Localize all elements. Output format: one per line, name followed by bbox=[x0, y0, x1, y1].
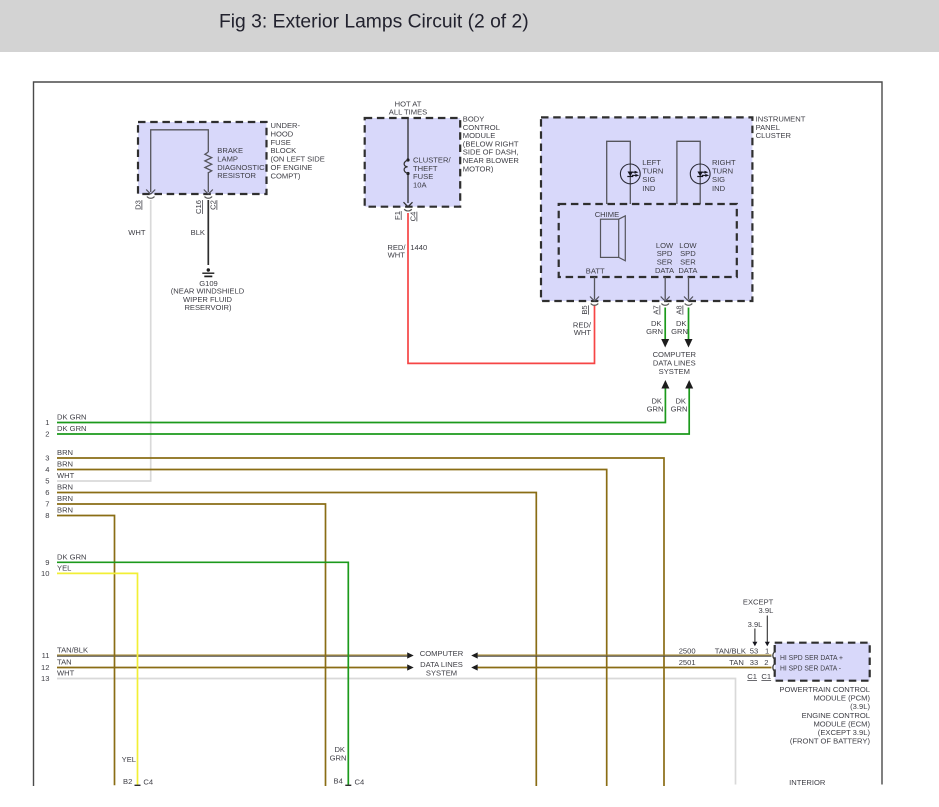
svg-text:DK GRN: DK GRN bbox=[57, 424, 87, 433]
connector C1 pin 2 (arc) bbox=[773, 663, 776, 671]
wire DK GRN from A7 to computer data lines system bbox=[646, 308, 669, 348]
fuse box: cluster/theft fuse bbox=[365, 118, 461, 207]
svg-text:BRN: BRN bbox=[57, 460, 73, 469]
svg-text:C1: C1 bbox=[747, 672, 757, 681]
speaker icon: chime bbox=[601, 216, 626, 261]
svg-text:C4: C4 bbox=[409, 212, 418, 222]
svg-text:BATT: BATT bbox=[586, 267, 605, 276]
svg-text:B2: B2 bbox=[123, 777, 132, 786]
svg-text:3.9L: 3.9L bbox=[759, 606, 774, 615]
svg-text:IND: IND bbox=[712, 184, 726, 193]
svg-text:11: 11 bbox=[42, 651, 50, 660]
svg-text:TAN/BLK: TAN/BLK bbox=[57, 646, 88, 655]
svg-text:C16: C16 bbox=[194, 200, 203, 214]
wire row 11 TAN/BLK left segment bbox=[42, 646, 414, 661]
label LOW SPD SER DATA (A8) bbox=[678, 241, 698, 275]
svg-text:D3: D3 bbox=[134, 200, 143, 210]
svg-text:C4: C4 bbox=[355, 778, 365, 787]
svg-text:COMPUTER: COMPUTER bbox=[653, 350, 697, 359]
svg-text:2500: 2500 bbox=[679, 647, 696, 656]
svg-text:1440: 1440 bbox=[410, 243, 427, 252]
svg-text:TAN: TAN bbox=[57, 658, 72, 667]
svg-text:33: 33 bbox=[750, 658, 758, 667]
connector C1 pin 1 (arc) bbox=[773, 651, 776, 659]
label: body control module bbox=[463, 115, 520, 174]
svg-text:2501: 2501 bbox=[679, 658, 696, 667]
svg-text:C1: C1 bbox=[761, 672, 771, 681]
svg-text:12: 12 bbox=[41, 663, 49, 672]
ground G109 bbox=[171, 268, 245, 312]
svg-text:INTERIOR: INTERIOR bbox=[789, 778, 826, 787]
label HI SPD SER DATA - bbox=[780, 664, 841, 673]
svg-text:1: 1 bbox=[765, 647, 769, 656]
wire row 4 BRN bbox=[45, 460, 606, 787]
svg-text:SYSTEM: SYSTEM bbox=[659, 367, 690, 376]
svg-text:BRN: BRN bbox=[57, 483, 73, 492]
svg-text:ALL TIMES: ALL TIMES bbox=[389, 108, 427, 117]
svg-text:GRN: GRN bbox=[646, 327, 663, 336]
svg-text:WHT: WHT bbox=[128, 228, 146, 237]
svg-text:4: 4 bbox=[45, 465, 49, 474]
svg-text:GRN: GRN bbox=[671, 327, 688, 336]
connector pin D3 bbox=[134, 190, 156, 210]
svg-text:C4: C4 bbox=[143, 778, 153, 787]
svg-text:F1: F1 bbox=[393, 211, 402, 220]
left turn signal indicator bbox=[607, 141, 664, 204]
wire: fuse internal bbox=[407, 118, 409, 203]
svg-text:B5: B5 bbox=[580, 305, 589, 314]
wire row 7 BRN bbox=[45, 494, 325, 786]
svg-text:A7: A7 bbox=[652, 305, 661, 314]
connector pin F1 / C4 bbox=[393, 202, 418, 221]
svg-text:A8: A8 bbox=[675, 305, 684, 314]
right turn signal indicator bbox=[677, 141, 736, 204]
wire row 8 BRN bbox=[45, 506, 114, 786]
svg-text:TAN: TAN bbox=[729, 658, 744, 667]
resistor: brake lamp diagnostic resistor bbox=[205, 146, 265, 192]
svg-text:BRN: BRN bbox=[57, 506, 73, 515]
svg-text:GRN: GRN bbox=[330, 753, 347, 762]
svg-text:6: 6 bbox=[45, 488, 49, 497]
node: computer data lines system (lower) bbox=[420, 649, 464, 677]
svg-text:2: 2 bbox=[45, 430, 49, 439]
wire BLK from C2 to ground bbox=[191, 200, 209, 265]
svg-text:RESERVOIR): RESERVOIR) bbox=[184, 303, 232, 312]
svg-text:WHT: WHT bbox=[57, 669, 75, 678]
wire row 5 WHT bbox=[45, 471, 151, 486]
wire row 11 TAN/BLK right segment from PCM bbox=[471, 647, 771, 659]
pin B5 wire inside IPC bbox=[580, 277, 599, 315]
svg-text:HI SPD SER DATA -: HI SPD SER DATA - bbox=[780, 664, 841, 673]
svg-text:7: 7 bbox=[45, 500, 49, 509]
svg-text:13: 13 bbox=[41, 674, 49, 683]
wire row 6 BRN bbox=[45, 483, 536, 787]
svg-text:(NEAR WINDSHIELD: (NEAR WINDSHIELD bbox=[171, 286, 245, 295]
svg-text:BRN: BRN bbox=[57, 448, 73, 457]
svg-text:9: 9 bbox=[45, 558, 49, 567]
svg-text:DK GRN: DK GRN bbox=[57, 552, 87, 561]
wire row 12 TAN left segment bbox=[41, 658, 414, 673]
svg-text:CLUSTER: CLUSTER bbox=[756, 131, 792, 140]
powertrain control module box bbox=[775, 643, 870, 681]
wire row 2 DK GRN to computer data lines system bbox=[45, 380, 693, 439]
svg-text:DATA: DATA bbox=[655, 266, 675, 275]
label: underhood fuse block bbox=[271, 121, 325, 180]
label BATT bbox=[586, 267, 605, 276]
svg-text:5: 5 bbox=[45, 477, 49, 486]
selector arrow EXCEPT 3.9L to pin 1 bbox=[743, 597, 774, 646]
wire row 13 WHT bbox=[41, 669, 735, 785]
svg-text:Fig 3: Exterior Lamps Circuit: Fig 3: Exterior Lamps Circuit (2 of 2) bbox=[219, 12, 529, 33]
wire WHT from D3 down to row 5 bbox=[128, 200, 150, 481]
fuse block box: underhood fuse block bbox=[138, 122, 267, 194]
header bar bbox=[0, 0, 939, 52]
label INTERIOR bbox=[789, 778, 826, 787]
labels C1 C1 bbox=[747, 672, 771, 681]
wire row 9 DK GRN bbox=[45, 552, 364, 786]
label HI SPD SER DATA + bbox=[780, 653, 844, 662]
svg-text:YEL: YEL bbox=[122, 755, 136, 764]
wire row 1 DK GRN to computer data lines system bbox=[45, 380, 669, 427]
fuse element: cluster/theft fuse 10A bbox=[404, 156, 451, 190]
instrument panel cluster box bbox=[541, 115, 806, 302]
svg-text:WHT: WHT bbox=[388, 250, 406, 259]
svg-text:53: 53 bbox=[750, 647, 758, 656]
wire row 12 TAN right segment from PCM bbox=[471, 658, 771, 671]
svg-text:2: 2 bbox=[764, 658, 768, 667]
node: computer data lines system (upper) bbox=[653, 350, 697, 376]
svg-text:COMPUTER: COMPUTER bbox=[420, 649, 464, 658]
svg-text:GRN: GRN bbox=[647, 405, 664, 414]
chime module inner box bbox=[559, 204, 737, 277]
svg-text:1: 1 bbox=[45, 418, 49, 427]
svg-text:RESISTOR: RESISTOR bbox=[217, 171, 256, 180]
svg-text:C2: C2 bbox=[209, 200, 218, 210]
wire row 3 BRN bbox=[45, 448, 664, 786]
svg-text:CHIME: CHIME bbox=[595, 210, 619, 219]
svg-text:10: 10 bbox=[41, 569, 49, 578]
pin A7 wire inside IPC bbox=[652, 277, 670, 315]
svg-text:B4: B4 bbox=[334, 777, 343, 786]
svg-text:WHT: WHT bbox=[574, 328, 592, 337]
wire row 10 YEL bbox=[41, 563, 153, 786]
svg-text:COMPT): COMPT) bbox=[271, 171, 301, 180]
svg-text:EXCEPT: EXCEPT bbox=[743, 597, 774, 606]
svg-text:TAN/BLK: TAN/BLK bbox=[715, 647, 746, 656]
pin A8 wire inside IPC bbox=[675, 277, 694, 315]
svg-text:DK GRN: DK GRN bbox=[57, 413, 87, 422]
svg-text:WHT: WHT bbox=[57, 471, 75, 480]
svg-text:10A: 10A bbox=[413, 180, 427, 189]
label LOW SPD SER DATA (A7) bbox=[655, 241, 675, 275]
svg-text:8: 8 bbox=[45, 511, 49, 520]
wire DK GRN from A8 to computer data lines system bbox=[671, 308, 692, 348]
svg-text:GRN: GRN bbox=[671, 405, 688, 414]
wire: fuse block internal loop bbox=[151, 130, 209, 192]
svg-text:(FRONT OF BATTERY): (FRONT OF BATTERY) bbox=[790, 737, 871, 746]
svg-text:HI SPD SER DATA +: HI SPD SER DATA + bbox=[780, 653, 844, 662]
label HOT AT ALL TIMES bbox=[389, 99, 427, 116]
selector arrow 3.9L to pin 53 bbox=[748, 620, 763, 646]
svg-text:IND: IND bbox=[642, 184, 656, 193]
svg-text:SYSTEM: SYSTEM bbox=[426, 668, 457, 677]
svg-text:3: 3 bbox=[45, 454, 49, 463]
svg-text:DATA: DATA bbox=[678, 266, 698, 275]
label: powertrain control module / engine control module bbox=[779, 685, 870, 746]
svg-text:MOTOR): MOTOR) bbox=[463, 164, 494, 173]
frame border bbox=[34, 82, 883, 786]
svg-text:YEL: YEL bbox=[57, 563, 71, 572]
svg-text:BLK: BLK bbox=[191, 228, 205, 237]
wire RED/WHT: fuse to IPC BATT bbox=[387, 213, 594, 363]
svg-text:3.9L: 3.9L bbox=[748, 620, 763, 629]
connector pins C16 / C2 bbox=[194, 190, 218, 214]
svg-text:BRN: BRN bbox=[57, 494, 73, 503]
